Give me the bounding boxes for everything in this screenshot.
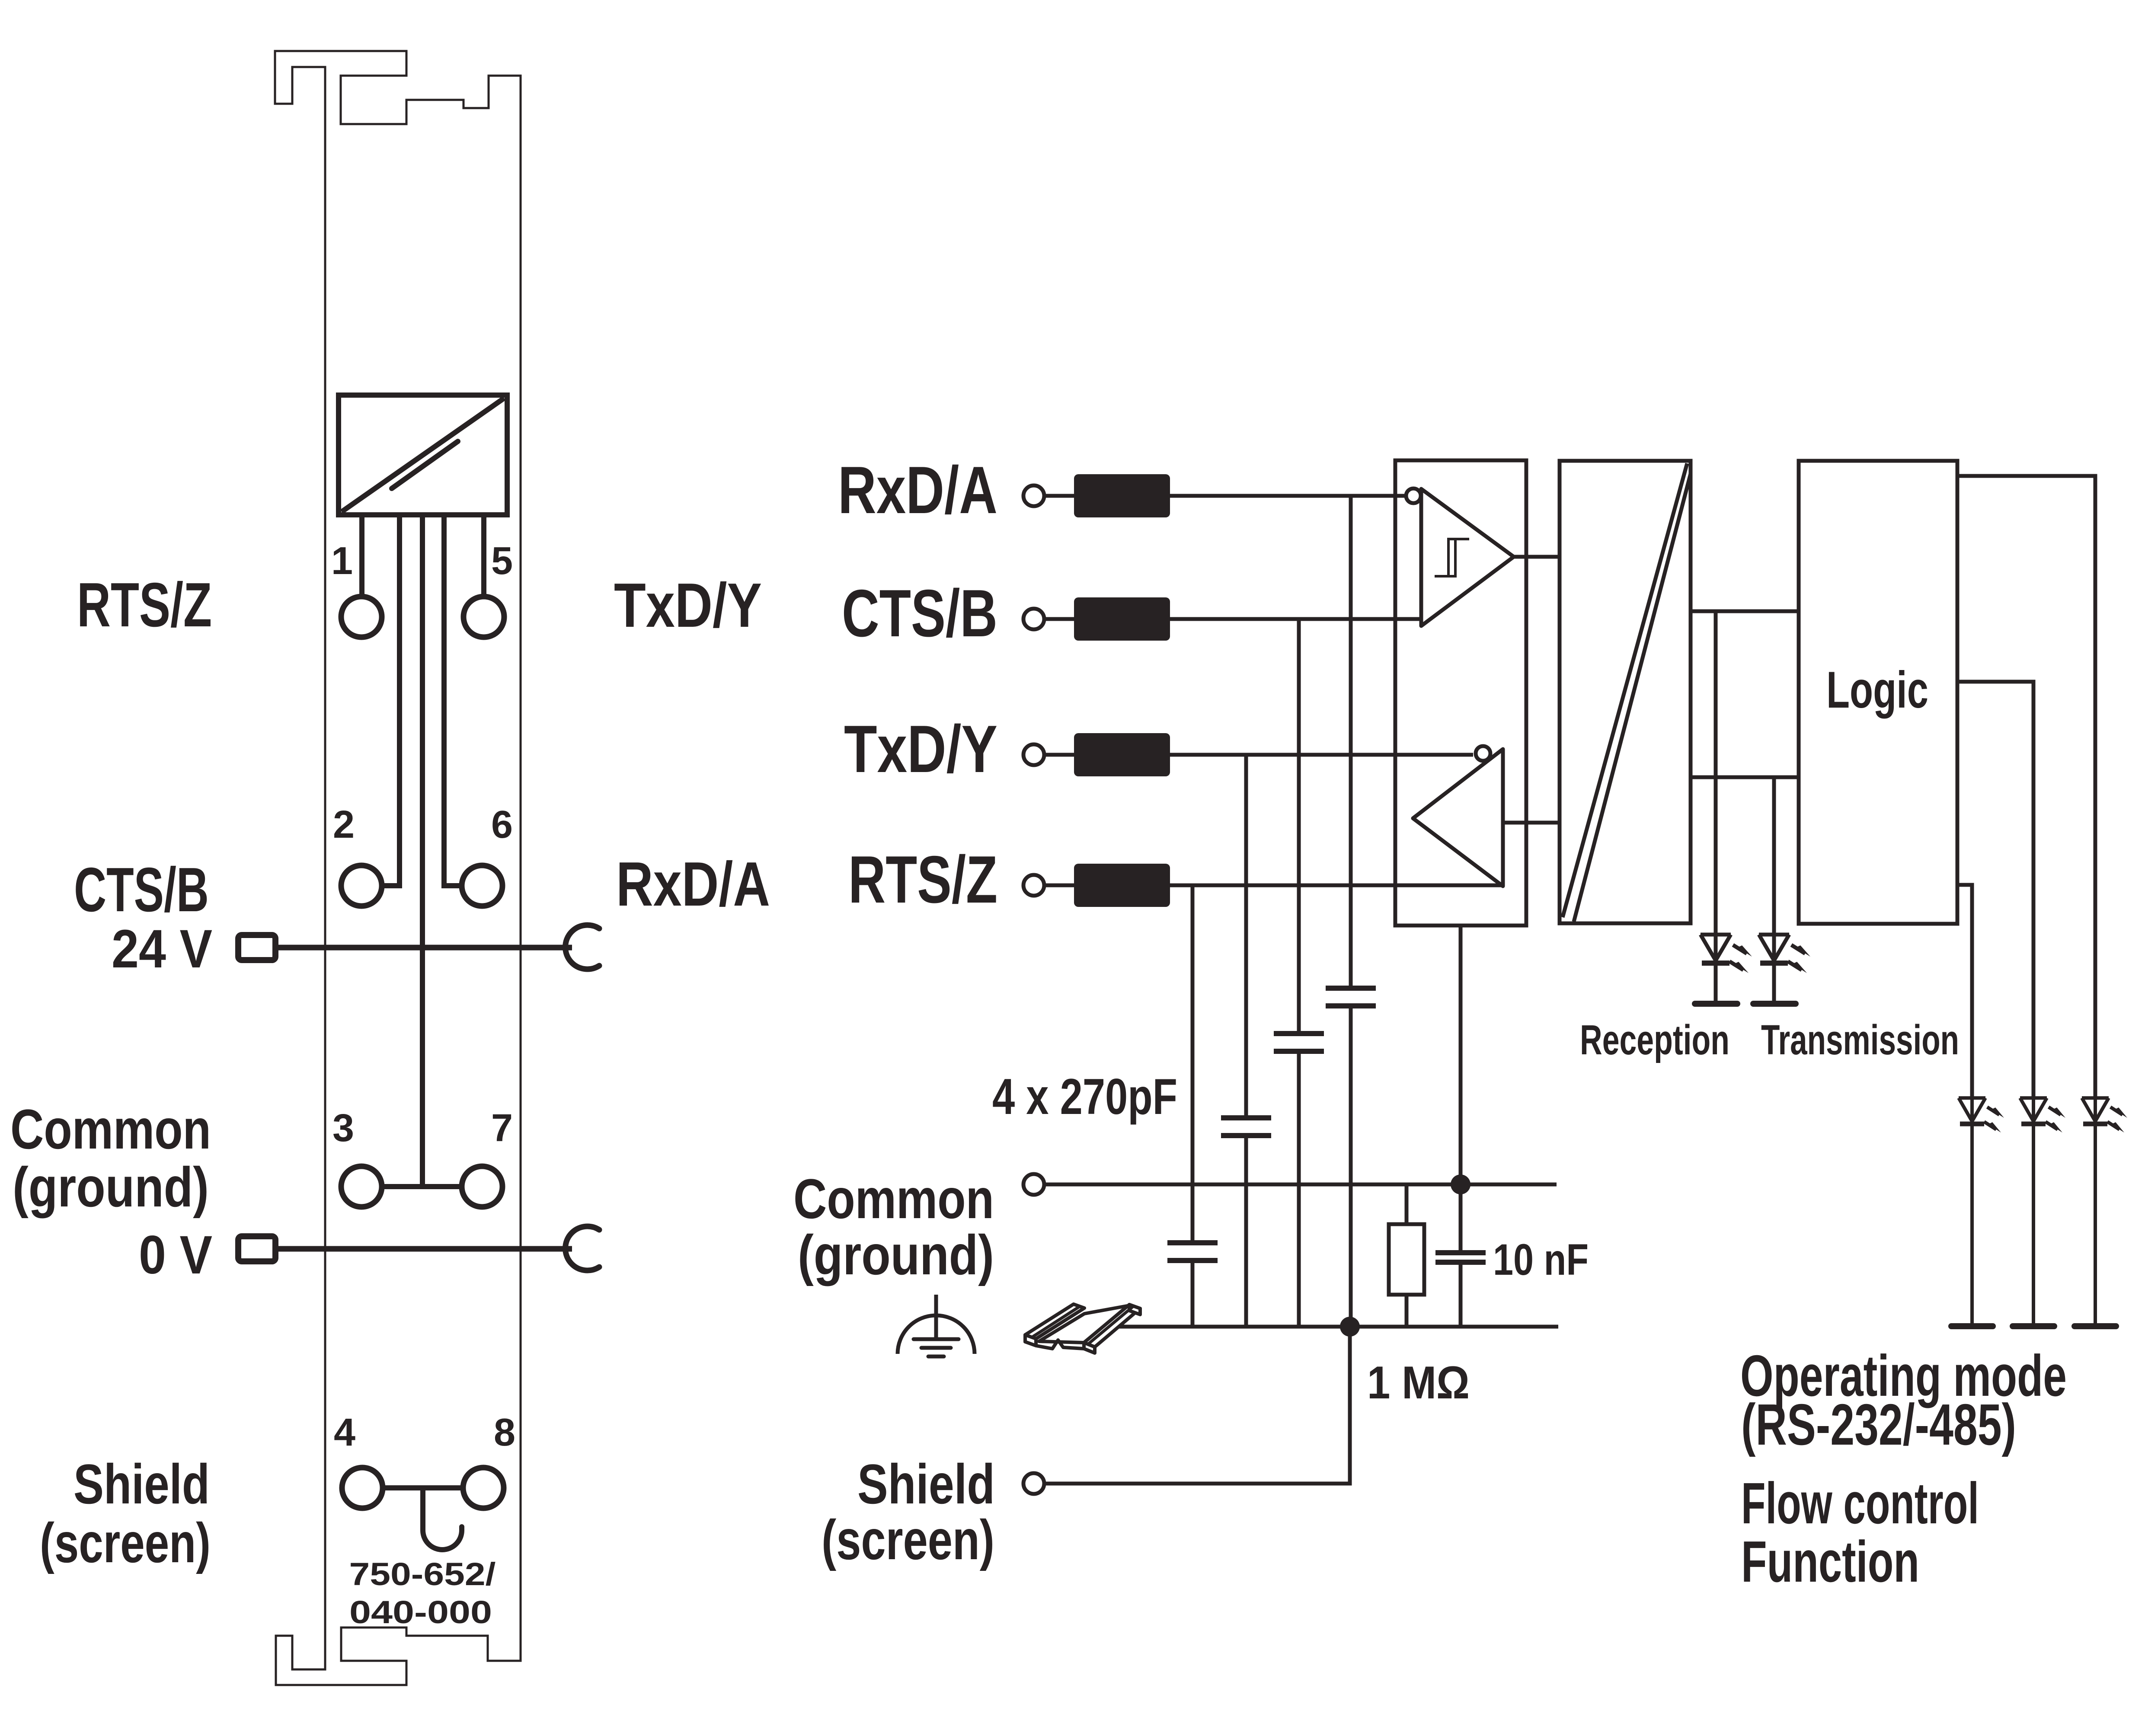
svg-text:CTS/B: CTS/B <box>842 576 997 651</box>
capacitor C5 10nF plates <box>1435 1253 1486 1262</box>
svg-text:RxD/A: RxD/A <box>616 849 770 919</box>
wire pins 4-8 link <box>384 1485 462 1490</box>
DIN rail 3D icon <box>1025 1304 1140 1353</box>
RTS/Z input terminal <box>1023 875 1044 896</box>
svg-text:RxD/A: RxD/A <box>838 453 997 527</box>
isolation diagonal 1 <box>1563 463 1687 917</box>
svg-text:8: 8 <box>494 1411 515 1454</box>
dc-dc converter U1 (module isolation box) <box>339 395 507 515</box>
resistor R1 1 MOhm body <box>1389 1224 1424 1295</box>
Logic box <box>1799 461 1957 924</box>
svg-text:Logic: Logic <box>1826 661 1928 719</box>
module 750-652 outline <box>275 51 521 1685</box>
svg-text:Common: Common <box>10 1098 211 1161</box>
0V spring contact C <box>566 1226 599 1270</box>
pin 2 <box>341 865 382 906</box>
svg-text:750-652/: 750-652/ <box>349 1556 496 1592</box>
TxD branch wire with 270pF cap <box>1244 755 1248 1118</box>
wire to Transmission LED <box>1772 777 1776 935</box>
RxD/A series resistor (black box) <box>1074 474 1170 517</box>
schmitt hysteresis symbol <box>1435 539 1469 576</box>
svg-text:Common: Common <box>793 1167 994 1230</box>
24V rail wire <box>278 945 572 951</box>
svg-text:1: 1 <box>331 539 353 583</box>
ground bus rail <box>1116 1325 1558 1329</box>
svg-text:5: 5 <box>491 539 513 583</box>
CTS branch wire with 270pF cap <box>1297 619 1301 1034</box>
TxD/Y input terminal <box>1023 744 1044 765</box>
svg-text:2: 2 <box>333 803 355 846</box>
svg-text:Reception: Reception <box>1580 1016 1729 1063</box>
svg-text:7: 7 <box>491 1107 513 1150</box>
junction node on Common <box>1451 1174 1470 1194</box>
resistor R1 1 MOhm lead <box>1405 1184 1409 1327</box>
svg-text:Function: Function <box>1741 1529 1919 1594</box>
receiver input inverter circle <box>1406 488 1421 503</box>
RTS/Z series resistor (black box) <box>1074 864 1170 907</box>
wire isolation to logic (receive) <box>1691 610 1799 613</box>
driver input inverter circle <box>1476 746 1490 761</box>
driver triangle <box>1413 749 1503 886</box>
svg-text:Shield: Shield <box>857 1452 995 1516</box>
0V power jumper contact (square) <box>238 1236 275 1261</box>
capacitor C5 10nF leads <box>1459 1184 1463 1327</box>
junction node shield/ground <box>1340 1317 1360 1337</box>
svg-text:RTS/Z: RTS/Z <box>77 570 212 640</box>
wire U1 to pin1 <box>359 515 364 597</box>
CTS/B series resistor (black box) <box>1074 597 1170 641</box>
TxD/Y series resistor (black box) <box>1074 733 1170 776</box>
U1 short parallel stroke <box>392 441 458 488</box>
receiver output wire <box>1514 555 1560 559</box>
svg-text:6: 6 <box>491 803 513 846</box>
pin 5 <box>464 597 504 637</box>
capacitor C1 270pF plates <box>1326 988 1376 1006</box>
capacitor C3 270pF plates <box>1221 1118 1271 1136</box>
CTS/B wire to receiver <box>1044 617 1421 621</box>
svg-text:CTS/B: CTS/B <box>74 855 209 925</box>
svg-text:1 MΩ: 1 MΩ <box>1367 1356 1470 1408</box>
svg-text:Flow control: Flow control <box>1741 1471 1979 1536</box>
svg-text:4: 4 <box>334 1411 355 1454</box>
svg-text:Transmission: Transmission <box>1761 1016 1959 1063</box>
svg-text:(screen): (screen) <box>40 1511 211 1574</box>
svg-text:3: 3 <box>332 1107 354 1150</box>
RTS/Z wire to driver <box>1044 884 1501 887</box>
Transmission LED ground bar <box>1753 1001 1796 1007</box>
Reception LED ground bar <box>1695 1001 1737 1007</box>
Transmission LED D2 <box>1759 935 1789 1001</box>
CTS/B input terminal <box>1023 609 1044 629</box>
svg-text:(screen): (screen) <box>822 1508 994 1571</box>
Reception LED D1 <box>1701 935 1731 1001</box>
Common terminal <box>1023 1174 1044 1195</box>
transceiver box <box>1395 460 1526 925</box>
wire U1 to pin2 <box>383 515 400 886</box>
wire pins 3-7 link <box>383 1184 460 1189</box>
pin 7 <box>462 1166 502 1207</box>
transceiver ground stub <box>1459 925 1463 1184</box>
operating mode LED D3 <box>1959 1098 1985 1324</box>
RxD/A input terminal <box>1023 485 1044 506</box>
operating mode LED D5 <box>2082 1098 2109 1324</box>
wire logic to operating-mode LED 1 <box>1957 885 1972 1098</box>
TxD/Y wire to driver <box>1044 753 1473 757</box>
svg-text:040-000: 040-000 <box>349 1594 492 1630</box>
24V power jumper contact (square) <box>238 935 275 960</box>
driver input wire from isolation <box>1503 821 1560 825</box>
svg-text:4 x 270pF: 4 x 270pF <box>992 1068 1177 1125</box>
svg-text:10 nF: 10 nF <box>1493 1235 1589 1284</box>
Transmission LED emission arrows <box>1788 945 1805 970</box>
svg-text:RTS/Z: RTS/Z <box>848 842 997 917</box>
wire to Reception LED <box>1714 611 1718 935</box>
svg-text:TxD/Y: TxD/Y <box>844 712 997 786</box>
receiver comparator triangle <box>1421 489 1514 626</box>
svg-text:(RS-232/-485): (RS-232/-485) <box>1741 1392 2016 1457</box>
hook wire under pins 4-8 <box>423 1488 462 1550</box>
isolation diagonal 2 <box>1574 474 1691 922</box>
wire U1 center to pins 3-7 link <box>420 515 425 1187</box>
wire U1 to pin6 <box>444 515 461 886</box>
svg-text:TxD/Y: TxD/Y <box>614 570 762 640</box>
pin 6 <box>462 865 502 906</box>
wire U1 to pin5 <box>481 515 486 597</box>
wire isolation to logic (transmit) <box>1691 775 1799 779</box>
RxD/A wire to receiver <box>1044 494 1407 498</box>
svg-text:24 V: 24 V <box>112 919 212 979</box>
capacitor C2 270pF plates <box>1274 1034 1324 1051</box>
pin 4 <box>342 1468 383 1508</box>
pin 3 <box>341 1166 382 1207</box>
svg-text:0 V: 0 V <box>139 1225 212 1285</box>
functional earth symbol <box>898 1295 975 1356</box>
pin 1 <box>341 597 382 637</box>
operating mode LED D4 <box>2020 1098 2047 1324</box>
24V spring contact C <box>566 925 599 969</box>
wire logic to operating-mode LED 2 <box>1957 682 2033 1098</box>
capacitor C4 270pF plates <box>1167 1243 1218 1261</box>
wire logic to operating-mode LED 3 <box>1957 476 2095 1098</box>
svg-text:Shield: Shield <box>74 1452 210 1516</box>
svg-text:(ground): (ground) <box>13 1155 209 1219</box>
pin 8 <box>463 1468 504 1508</box>
Shield terminal <box>1023 1473 1044 1494</box>
0V rail wire <box>278 1246 572 1252</box>
Reception LED emission arrows <box>1729 945 1747 970</box>
RTS branch wire with 270pF cap <box>1191 885 1195 1243</box>
Shield wire <box>1044 1327 1350 1484</box>
svg-text:(ground): (ground) <box>798 1223 994 1286</box>
Common wire <box>1044 1183 1557 1187</box>
RxD branch wire with 270pF cap <box>1349 496 1353 988</box>
isolation barrier box <box>1560 461 1691 923</box>
U1 diagonal <box>342 398 504 512</box>
